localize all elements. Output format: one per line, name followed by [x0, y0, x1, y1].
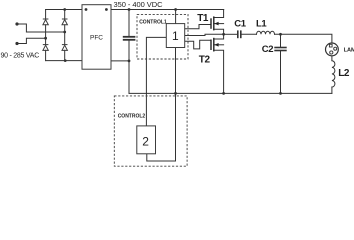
svg-text:CONTROL1: CONTROL1 — [139, 19, 167, 25]
svg-text:L1: L1 — [256, 18, 267, 29]
svg-text:PFC: PFC — [90, 35, 103, 42]
svg-text:2: 2 — [142, 134, 149, 148]
svg-text:C1: C1 — [234, 18, 246, 29]
svg-text:T2: T2 — [199, 55, 211, 66]
svg-text:90 - 285 VAC: 90 - 285 VAC — [1, 53, 40, 60]
svg-text:LAMP: LAMP — [344, 47, 354, 53]
svg-text:1: 1 — [172, 29, 179, 43]
svg-text:T1: T1 — [197, 13, 209, 24]
svg-text:CONTROL2: CONTROL2 — [118, 114, 146, 120]
svg-text:C2: C2 — [262, 44, 273, 55]
svg-text:L2: L2 — [338, 68, 350, 79]
svg-text:350 - 400 VDC: 350 - 400 VDC — [114, 0, 164, 9]
